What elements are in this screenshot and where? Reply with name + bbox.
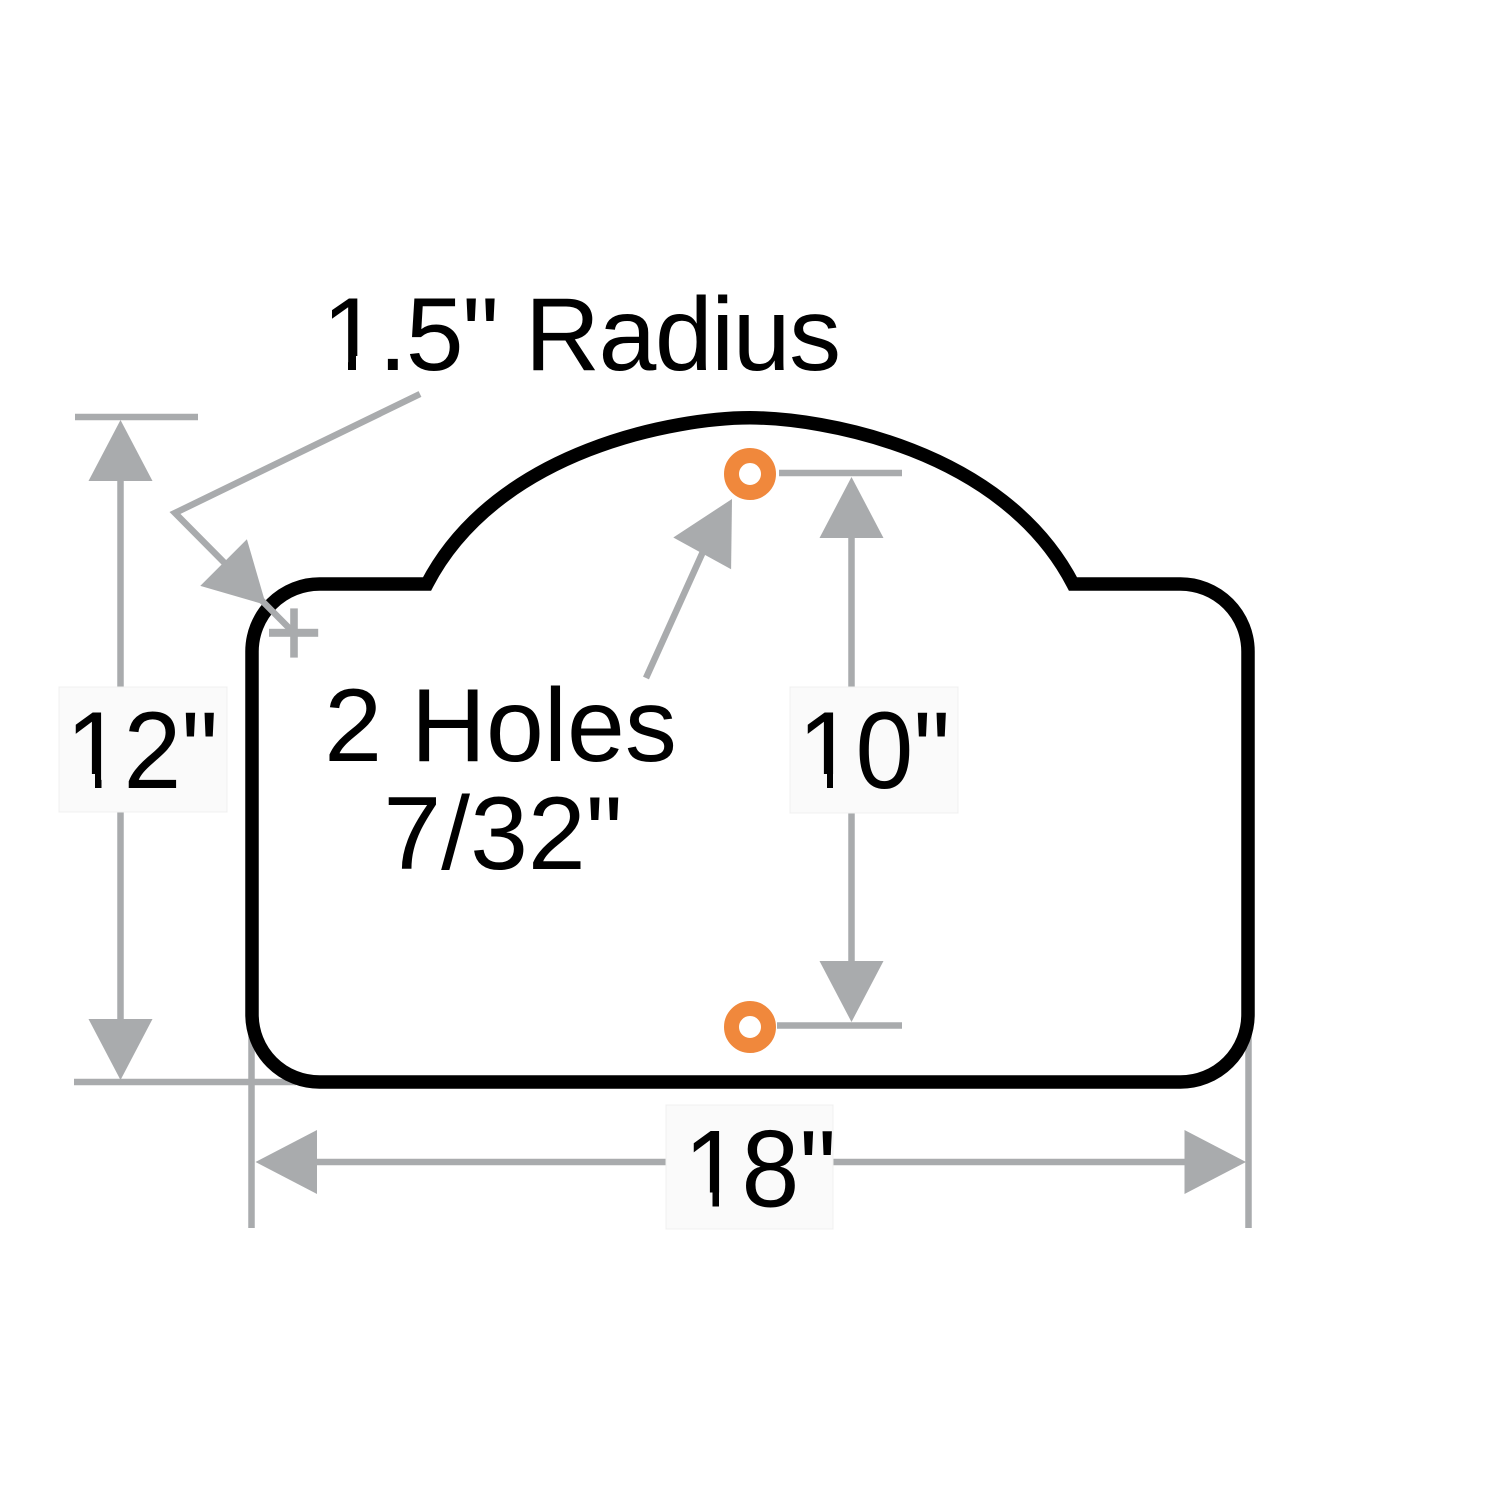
wire: 12in top tick <box>75 414 198 421</box>
svg-text:10": 10" <box>798 688 951 811</box>
wire: 10in upper shaft <box>848 535 855 687</box>
arrow: 10in down arrowhead <box>820 961 884 1022</box>
svg-text:12": 12" <box>66 688 219 811</box>
wire: 12in bottom tick <box>74 1079 296 1086</box>
svg-text:1.5" Radius: 1.5" Radius <box>322 277 840 393</box>
wire: 10in bottom tick <box>777 1022 902 1029</box>
arrow: radius leader arrowhead <box>200 539 266 605</box>
hole bottom 7/32 <box>732 1009 769 1046</box>
wire: 12in upper shaft <box>117 478 124 687</box>
label box 12in <box>59 687 227 812</box>
arrow: 12in up arrowhead <box>89 420 153 481</box>
sign blank outline <box>252 418 1248 1082</box>
hole top 7/32 <box>732 456 769 493</box>
arrow: 18in left arrowhead <box>256 1130 318 1194</box>
svg-text:7/32": 7/32" <box>383 776 622 892</box>
arrow: 18in right arrowhead <box>1185 1130 1247 1194</box>
wire: radius leader polyline <box>175 394 420 630</box>
arrow: 10in up arrowhead <box>820 477 884 538</box>
arrow: 12in down arrowhead <box>89 1019 153 1080</box>
wire: 18in dim line left segment <box>315 1159 666 1166</box>
node: radius center cross <box>269 629 318 637</box>
wire: 18in dim line right segment <box>833 1159 1186 1166</box>
arrow: 2 holes leader arrowhead <box>673 499 732 569</box>
wire: 18in right extension line <box>1245 1036 1252 1228</box>
label box 18in <box>666 1105 833 1229</box>
wire: 2 holes leader shaft <box>646 545 706 678</box>
svg-text:18": 18" <box>684 1107 837 1230</box>
wire: 12in lower shaft <box>117 812 124 1022</box>
wire: 10in top tick <box>779 470 902 477</box>
label box 10in <box>790 687 958 813</box>
wire: 18in left extension line <box>248 1036 255 1228</box>
svg-text:2 Holes: 2 Holes <box>324 668 677 784</box>
wire: 10in lower shaft <box>848 813 855 965</box>
